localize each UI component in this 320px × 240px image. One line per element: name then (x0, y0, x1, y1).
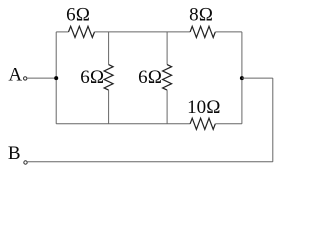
wire column1 upper lead (108, 32, 110, 65)
terminal B open circle (24, 161, 27, 164)
wire from right node to outer vertical (242, 77, 273, 79)
node junction dot left (54, 76, 58, 80)
svg-text:6Ω: 6Ω (66, 4, 90, 25)
svg-text:10Ω: 10Ω (187, 97, 221, 118)
resistor R1 6ohm top-left (69, 26, 95, 37)
wire from terminal A to node (27, 77, 56, 79)
wire top rail middle segment (95, 31, 191, 33)
svg-text:6Ω: 6Ω (80, 67, 104, 88)
svg-text:A: A (8, 64, 22, 85)
wire left rail (55, 32, 57, 124)
resistor R3 6ohm vertical left (104, 65, 113, 91)
wire bottom rail right segment (215, 123, 242, 125)
resistor R2 8ohm top-right (190, 26, 215, 37)
wire right rail (241, 32, 243, 124)
wire bottom rail left segment (56, 123, 190, 125)
terminal A open circle (23, 77, 26, 80)
resistor R5 10ohm bottom-right (190, 118, 215, 129)
wire top rail right segment (215, 31, 242, 33)
wire from terminal B to outer vertical (27, 161, 273, 163)
svg-text:6Ω: 6Ω (138, 67, 162, 88)
wire column1 lower lead (108, 90, 110, 124)
resistor R4 6ohm vertical right (163, 65, 172, 91)
wire top rail left segment (56, 31, 68, 33)
wire column2 lower lead (166, 90, 168, 124)
wire outer right vertical (272, 78, 274, 162)
svg-text:B: B (8, 143, 21, 164)
node junction dot right (240, 76, 244, 80)
svg-text:8Ω: 8Ω (189, 4, 213, 25)
wire column2 upper lead (166, 32, 168, 65)
